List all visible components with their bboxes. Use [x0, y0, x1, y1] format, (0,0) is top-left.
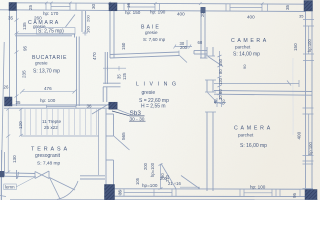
window kitchen bottom wall: [47, 105, 77, 109]
dim line baie door horizontal: [174, 40, 193, 49]
window top camera: jambs + glass line: [226, 4, 268, 12]
svg-text:235: 235: [22, 70, 27, 78]
svg-text:80: 80: [218, 69, 223, 74]
wall living left: [105, 109, 107, 199]
stairs bottom edge: [21, 135, 99, 137]
svg-text:CAMERA: CAMERA: [234, 126, 273, 132]
svg-text:125: 125: [122, 72, 127, 80]
svg-text:476: 476: [44, 86, 52, 91]
svg-text:hp: 170: hp: 170: [43, 11, 59, 16]
svg-text:40: 40: [213, 99, 218, 104]
jamb caps camera doors: [205, 56, 216, 112]
svg-text:hp: 100: hp: 100: [250, 184, 266, 189]
shaft niche hall: [104, 52, 106, 84]
svg-text:120: 120: [218, 77, 223, 85]
wall top exterior inner line: [0, 10, 306, 12]
svg-text:21 ÷16: 21 ÷16: [168, 181, 181, 186]
small pier bottom wall: [280, 189, 300, 196]
svg-text:LIVING: LIVING: [136, 82, 181, 88]
svg-text:26: 26: [4, 85, 9, 90]
svg-text:30 - 30: 30 - 30: [130, 116, 145, 122]
svg-text:200: 200: [143, 162, 148, 170]
wall right exterior outer line: [311, 4, 313, 200]
svg-text:20: 20: [221, 99, 226, 104]
door swing top of stairs: [118, 110, 131, 115]
svg-text:lemn: lemn: [5, 185, 15, 190]
svg-text:11 Trepte: 11 Trepte: [42, 119, 62, 124]
wall baie-camera corner piece: [194, 50, 207, 52]
dim ticks top wall line: [45, 2, 264, 5]
svg-text:120: 120: [18, 121, 23, 129]
dim line inside camera top: [214, 80, 299, 87]
window bottom camera: jambs + glass: [240, 189, 276, 196]
window right wall lower: jambs + glass: [303, 108, 314, 161]
wall terrace bottom: [3, 172, 35, 175]
svg-text:parchet: parchet: [235, 45, 251, 50]
terrain slant line left: [2, 42, 5, 171]
svg-text:hp: 150: hp: 150: [125, 10, 141, 15]
wall right exterior inner line: [305, 11, 307, 200]
dim line vertical camera doors: [218, 51, 222, 99]
wall camara bottom: [15, 33, 72, 35]
svg-text:hp:100: hp:100: [307, 39, 312, 52]
corner blob terasa wall left end: [0, 171, 4, 177]
svg-text:30: 30: [218, 95, 223, 100]
svg-text:gresie: gresie: [142, 90, 156, 96]
svg-text:hp: 100: hp: 100: [40, 98, 56, 103]
column left terrace corner: [5, 97, 13, 106]
pier right wall lower: [303, 164, 314, 189]
wall baie left: [109, 11, 111, 58]
svg-text:25: 25: [28, 4, 33, 10]
svg-text:parchet: parchet: [238, 133, 254, 138]
svg-text:130: 130: [12, 155, 17, 163]
svg-text:470: 470: [92, 52, 97, 60]
svg-text:30: 30: [91, 3, 96, 9]
stair landing edge: [98, 109, 100, 175]
svg-text:hp=100: hp=100: [150, 162, 155, 177]
column living-left bottom hatched: [105, 185, 115, 200]
wall left exterior inner line: [16, 10, 18, 106]
svg-text:400: 400: [247, 15, 255, 20]
column bottom-right corner: [305, 190, 317, 200]
svg-text:160: 160: [86, 26, 91, 33]
column top baie-left: [109, 3, 117, 11]
wall camara right: [81, 11, 83, 32]
svg-text:95: 95: [23, 45, 28, 51]
svg-text:400: 400: [177, 12, 185, 17]
wall bottom exterior: [104, 188, 313, 190]
svg-text:90: 90: [242, 64, 247, 69]
window top baie: jambs + glass line: [124, 3, 160, 11]
column top baie-right: [201, 7, 206, 13]
wall kitchen right: [76, 37, 78, 107]
stairs break diagonal: [92, 103, 111, 114]
svg-text:150: 150: [218, 58, 223, 66]
wall living/camera vertical: [206, 47, 208, 56]
dim line entrance door vertical: [159, 164, 163, 190]
svg-text:TERASA: TERASA: [31, 147, 70, 153]
svg-text:35: 35: [285, 4, 290, 10]
jamb cap baie door: [178, 51, 180, 56]
svg-text:20: 20: [200, 11, 205, 17]
svg-text:200: 200: [180, 45, 188, 50]
stairs treads: [25, 109, 97, 135]
dim arrows near wall junction 40/20: [214, 98, 226, 107]
door swing baie: [179, 55, 187, 63]
door swing entrance bottom: [161, 164, 176, 189]
door swing camara: [66, 15, 76, 28]
window top camara: jambs + glass line: [46, 3, 76, 10]
svg-text:S: 13,70 mp: S: 13,70 mp: [33, 69, 60, 75]
svg-text:200: 200: [86, 15, 91, 22]
wall left exterior outer line: [9, 3, 11, 97]
dim tick camara plus: [83, 31, 88, 36]
svg-text:S: 16,00 mp: S: 16,00 mp: [240, 143, 267, 149]
svg-text:260: 260: [34, 16, 42, 21]
svg-text:CAMERA: CAMERA: [231, 38, 269, 44]
column top-right corner: [304, 1, 313, 12]
column hall center: [109, 102, 117, 109]
svg-text:95: 95: [292, 192, 297, 198]
window bottom living: jambs + glass: [120, 189, 176, 197]
svg-text:H = 2,55 m: H = 2,55 m: [141, 104, 166, 110]
svg-text:36: 36: [87, 104, 93, 109]
door swing terrace stair small: [181, 176, 200, 190]
svg-text:565: 565: [121, 132, 126, 140]
dim ticks left wall line: [15, 19, 19, 98]
wall baie bottom: [110, 52, 179, 55]
svg-text:60: 60: [198, 40, 203, 45]
svg-text:S: 14,00 mp: S: 14,00 mp: [233, 52, 260, 58]
wall between cameras: [214, 91, 312, 92]
scan crease lines: [292, 58, 294, 135]
svg-text:210: 210: [165, 174, 170, 182]
svg-text:S: 7,60 mp: S: 7,60 mp: [143, 37, 166, 42]
door swing living left: [114, 136, 130, 150]
wall top exterior outer line: [9, 3, 312, 4]
svg-text:hp=100: hp=100: [142, 183, 158, 188]
stairs left edge: [20, 109, 22, 136]
column top-left: [9, 3, 17, 11]
window right wall upper: jambs + glass: [303, 20, 314, 61]
svg-text:105: 105: [135, 177, 140, 185]
wall hall piece L: [103, 82, 121, 84]
svg-text:S: 7,48 mp: S: 7,48 mp: [37, 161, 61, 167]
svg-text:gresie: gresie: [145, 30, 158, 35]
svg-text:90: 90: [218, 89, 223, 94]
terrace door leaf + arc: [50, 178, 61, 200]
svg-text:135: 135: [22, 22, 27, 30]
svg-text:150: 150: [121, 42, 126, 50]
door swing camera bottom: [208, 93, 219, 104]
door swing camera top: [208, 57, 223, 67]
wall baie/camera vertical: [200, 7, 202, 58]
svg-text:25 x22: 25 x22: [44, 125, 58, 130]
svg-text:150: 150: [293, 43, 298, 51]
svg-text:gresogranit: gresogranit: [35, 153, 61, 159]
svg-text:35: 35: [118, 189, 123, 195]
svg-text:35: 35: [299, 14, 304, 19]
bottom-left corner lines: [0, 177, 6, 200]
svg-text:S: 2,75 mp): S: 2,75 mp): [38, 29, 64, 35]
left edge bottom line: [1, 150, 3, 200]
svg-text:hp: 190: hp: 190: [150, 10, 166, 15]
svg-text:35: 35: [8, 16, 14, 21]
wall bottom kitchen y106: [4, 104, 115, 106]
dim line left terrace vertical: [6, 108, 10, 174]
terrace wood door X mark: [35, 171, 49, 179]
svg-text:35: 35: [117, 74, 122, 79]
svg-text:400: 400: [297, 131, 302, 139]
svg-text:16: 16: [126, 2, 131, 8]
svg-text:35: 35: [16, 100, 21, 105]
svg-text:gresie: gresie: [35, 61, 48, 66]
svg-text:hp:100: hp:100: [308, 142, 313, 155]
